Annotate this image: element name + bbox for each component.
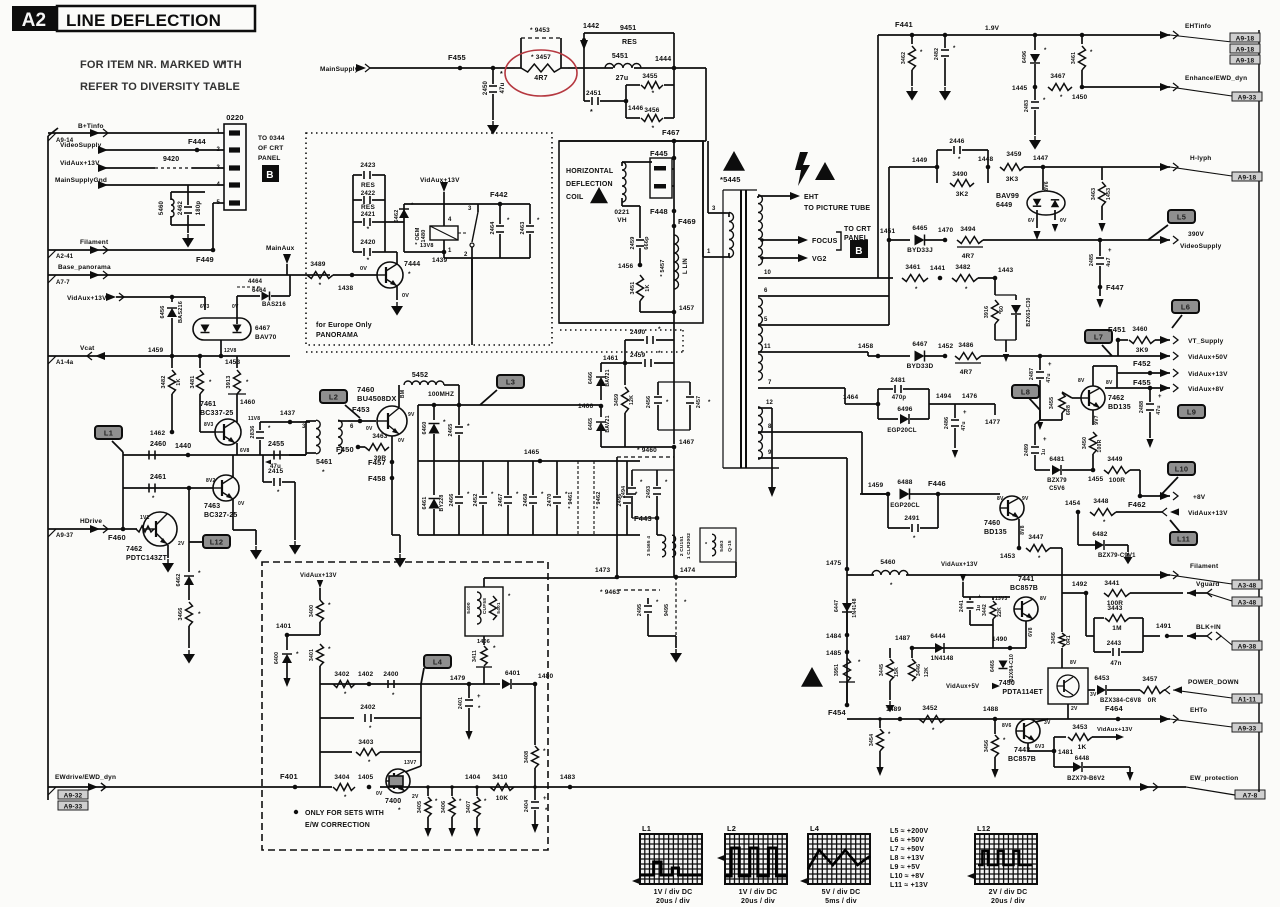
emitter resistor 3463 39R	[358, 433, 405, 462]
svg-text:2443: 2443	[1107, 640, 1122, 647]
svg-text:L3: L3	[506, 378, 515, 387]
svg-text:2493: 2493	[646, 486, 652, 498]
resistor 3459 3K3	[1000, 151, 1170, 183]
box for Europe Only dotted	[306, 133, 552, 345]
svg-text:VidAux+13V: VidAux+13V	[420, 177, 460, 184]
svg-text:12K: 12K	[924, 667, 930, 677]
svg-text:1477: 1477	[985, 419, 1000, 426]
node F460	[108, 489, 126, 542]
svg-text:F441: F441	[895, 20, 913, 29]
wire F454 row	[847, 705, 900, 718]
node 1455	[1088, 468, 1103, 483]
flag L2	[320, 390, 360, 418]
zener 6465 BZX84-C10	[990, 648, 1015, 683]
scope L12	[967, 824, 1037, 905]
svg-text:6467: 6467	[912, 341, 927, 348]
svg-text:L4: L4	[810, 824, 820, 833]
svg-text:A9-32: A9-32	[64, 793, 83, 800]
svg-text:2489: 2489	[1024, 444, 1030, 456]
svg-text:FOCUS: FOCUS	[812, 238, 838, 245]
wire left column 617	[560, 455, 617, 577]
svg-text:11: 11	[764, 344, 771, 350]
wire BAV70 common 12V8	[221, 340, 236, 356]
node 1453 right	[1000, 546, 1021, 560]
svg-text:1441: 1441	[930, 265, 945, 272]
svg-text:3486: 3486	[958, 342, 973, 349]
resistor 3486 4R7	[955, 342, 1178, 376]
jumper 9453 dashed	[521, 27, 561, 58]
node F442	[444, 190, 530, 206]
svg-text:F443: F443	[634, 514, 652, 523]
jumper 9463 dashed	[600, 577, 660, 596]
svg-text:*: *	[443, 419, 446, 426]
svg-text:*: *	[590, 109, 593, 116]
svg-text:12V8: 12V8	[224, 348, 236, 354]
diode 6496 right	[1022, 33, 1047, 87]
svg-text:7462: 7462	[126, 546, 142, 553]
svg-text:BAV21: BAV21	[605, 415, 611, 432]
svg-text:LINE DEFLECTION: LINE DEFLECTION	[66, 11, 221, 30]
svg-text:3441: 3441	[1104, 580, 1119, 587]
svg-text:EHTinfo: EHTinfo	[1185, 23, 1211, 30]
EW transformer 5400 5401 box	[465, 578, 617, 645]
svg-text:5ms / div: 5ms / div	[825, 898, 857, 905]
svg-text:VidAux+13V: VidAux+13V	[1097, 727, 1133, 733]
panel flag B right	[850, 240, 868, 258]
svg-text:3K3: 3K3	[1006, 176, 1019, 183]
svg-text:3461: 3461	[905, 264, 920, 271]
wire 1474 row	[617, 562, 736, 579]
svg-text:3: 3	[216, 165, 220, 171]
svg-text:6R8: 6R8	[1066, 405, 1072, 415]
label VidAux+50V	[1188, 354, 1228, 361]
transistor 7461 BC337-25	[200, 401, 260, 445]
svg-text:2494: 2494	[621, 486, 627, 498]
svg-text:4464: 4464	[248, 279, 263, 285]
wire row 390V	[880, 228, 910, 242]
svg-text:EWdrive/EWD_dyn: EWdrive/EWD_dyn	[55, 774, 116, 781]
wire 2461 row	[123, 474, 213, 502]
svg-text:A9-18: A9-18	[1236, 36, 1255, 43]
svg-text:7400: 7400	[385, 798, 401, 805]
svg-text:F450: F450	[336, 445, 354, 454]
svg-text:L7: L7	[1094, 333, 1103, 342]
svg-text:2459: 2459	[630, 236, 636, 249]
svg-text:1440: 1440	[175, 443, 191, 450]
svg-text:A9-33: A9-33	[1238, 95, 1257, 102]
svg-text:22K: 22K	[997, 607, 1003, 617]
svg-text:+8V: +8V	[1193, 494, 1206, 501]
svg-text:EGP20CL: EGP20CL	[890, 502, 920, 509]
wire VidAux+13V jumper 9420	[60, 156, 224, 172]
svg-text:*: *	[319, 282, 322, 289]
svg-text:for Europe Only: for Europe Only	[316, 322, 372, 329]
svg-text:2459: 2459	[630, 352, 645, 359]
svg-text:VT_Supply: VT_Supply	[1188, 338, 1224, 345]
capacitor 2488	[1139, 388, 1162, 448]
node 1490	[992, 636, 1012, 650]
VG2 output	[760, 254, 826, 263]
svg-text:+: +	[1048, 362, 1052, 368]
svg-text:5461: 5461	[316, 459, 332, 466]
svg-text:3463: 3463	[1091, 188, 1097, 200]
svg-text:BAS216: BAS216	[178, 301, 184, 323]
svg-text:666p: 666p	[644, 236, 650, 250]
wire 1439 relay base rail	[397, 240, 447, 264]
wire +8V row	[1062, 492, 1206, 509]
svg-text:* 9463: * 9463	[600, 589, 620, 596]
deflection coil 0221 VH	[614, 162, 652, 224]
resistor 3467	[1048, 73, 1072, 101]
svg-text:6482: 6482	[1092, 531, 1107, 538]
diode 6444 1N4148	[930, 633, 953, 662]
svg-text:TO 0344: TO 0344	[258, 135, 285, 142]
wire pin10 row	[886, 277, 893, 279]
svg-text:F447: F447	[1106, 283, 1124, 292]
EHT output	[758, 192, 870, 212]
svg-text:1405: 1405	[358, 774, 373, 781]
dotted border mid	[306, 330, 683, 352]
resistor 3457 4R7	[515, 54, 568, 82]
jumper 9460 dashed	[617, 447, 674, 457]
wire VideoSupply	[60, 137, 224, 154]
node 1441	[930, 265, 945, 280]
diode 6447 1N4148	[834, 595, 858, 635]
node 1405	[358, 774, 373, 789]
svg-text:9V: 9V	[1022, 496, 1029, 502]
transformer pin 9	[758, 450, 847, 458]
svg-text:F446: F446	[928, 479, 946, 488]
node 1489	[886, 706, 902, 721]
transformer frame	[723, 190, 779, 468]
FOCUS output	[760, 236, 837, 245]
svg-text:1492: 1492	[1072, 581, 1087, 588]
resistor 3460 3K9	[1118, 326, 1178, 354]
svg-text:2423: 2423	[360, 162, 375, 169]
wire 3447 row	[1010, 549, 1062, 551]
svg-text:470p: 470p	[892, 395, 907, 401]
warning triangle EHT	[815, 162, 835, 180]
svg-text:1439: 1439	[432, 257, 447, 264]
svg-text:2483: 2483	[1024, 100, 1030, 112]
vertical 320 column	[319, 684, 321, 787]
diode 6460 BY228	[422, 403, 446, 461]
svg-text:1460: 1460	[240, 399, 255, 406]
wire 7400 collector	[404, 752, 421, 772]
svg-text:A9-33: A9-33	[1238, 726, 1257, 733]
warning triangle coil	[590, 187, 608, 203]
svg-text:1479: 1479	[450, 675, 465, 682]
transformer ground	[0, 0, 1, 1]
ground under 3466	[183, 650, 195, 664]
wire to F467	[559, 68, 706, 141]
svg-text:0220: 0220	[226, 113, 244, 122]
capacitor 2459b	[625, 350, 674, 367]
svg-text:2467: 2467	[498, 493, 504, 506]
note for Europe Only PANORAMA	[316, 322, 372, 339]
svg-text:VidAux+13V: VidAux+13V	[1188, 510, 1228, 517]
svg-text:8V: 8V	[1078, 378, 1085, 384]
diode 6462	[176, 570, 201, 600]
svg-text:1480: 1480	[421, 229, 427, 242]
capacitor 2402	[320, 704, 421, 732]
svg-text:0221: 0221	[614, 209, 629, 216]
transformer pin 5	[758, 317, 889, 325]
node 1494	[929, 393, 955, 404]
resistor 3457 0R	[1140, 676, 1262, 704]
wire Filament right row	[1160, 563, 1262, 590]
svg-text:1475: 1475	[826, 560, 841, 567]
svg-text:2482: 2482	[934, 48, 940, 60]
wire HDrive	[48, 518, 137, 539]
svg-text:A9-38: A9-38	[1238, 644, 1257, 651]
transistor 7462 PDTC143ZT	[126, 512, 185, 573]
svg-text:3455: 3455	[1049, 397, 1055, 409]
resistor 3453 1K	[1054, 724, 1133, 751]
capacitor 2496	[617, 461, 638, 535]
svg-text:VideoSupply: VideoSupply	[1180, 243, 1222, 250]
voltage table	[890, 828, 928, 889]
resistor 3489	[287, 261, 352, 289]
svg-text:A2: A2	[22, 10, 47, 31]
svg-text:1 CLR2002: 1 CLR2002	[686, 533, 692, 559]
wire Base_panorama	[48, 264, 330, 286]
svg-text:RES: RES	[622, 39, 637, 46]
svg-text:L10 ≈ +8V: L10 ≈ +8V	[890, 873, 924, 880]
note diversity table	[80, 59, 242, 93]
svg-text:3446: 3446	[916, 664, 922, 676]
svg-text:7460: 7460	[357, 385, 375, 394]
svg-text:TO CRT: TO CRT	[844, 226, 872, 233]
svg-text:6481: 6481	[1049, 456, 1064, 463]
diode 6401	[502, 670, 535, 689]
svg-text:4: 4	[216, 182, 220, 188]
resistor 3449 100R	[1104, 456, 1140, 496]
svg-text:6448: 6448	[1075, 755, 1090, 762]
capacitor 2423	[353, 162, 385, 252]
wire EW protection to edge	[1140, 775, 1265, 800]
svg-text:4R7: 4R7	[960, 369, 973, 376]
resistor 3454	[869, 717, 891, 776]
svg-text:3401: 3401	[309, 649, 315, 661]
svg-text:1: 1	[448, 248, 452, 254]
note TO 0344 OF CRT PANEL	[258, 135, 285, 162]
svg-text:REFER TO DIVERSITY TABLE: REFER TO DIVERSITY TABLE	[80, 81, 240, 93]
resistor 3459 12K	[614, 363, 635, 447]
title block A2	[12, 6, 57, 31]
node 1448	[978, 156, 993, 169]
svg-text:2401: 2401	[458, 697, 464, 709]
svg-text:6496: 6496	[1022, 51, 1028, 63]
capacitor 2495 jumper 9495	[617, 577, 687, 636]
svg-text:1446: 1446	[628, 105, 643, 112]
transformer pin 10	[758, 270, 893, 278]
svg-text:6465: 6465	[912, 225, 927, 232]
svg-text:A2-41: A2-41	[56, 254, 74, 260]
svg-text:3489: 3489	[310, 261, 325, 268]
svg-text:3449: 3449	[1107, 456, 1122, 463]
svg-text:6444: 6444	[930, 633, 945, 640]
svg-text:0V: 0V	[398, 438, 405, 444]
svg-text:POWER_DOWN: POWER_DOWN	[1188, 679, 1239, 686]
svg-text:6V3: 6V3	[1035, 744, 1045, 750]
svg-text:1449: 1449	[912, 157, 927, 164]
svg-text:9451: 9451	[620, 25, 636, 32]
svg-text:1466: 1466	[578, 403, 593, 410]
resistor 3447	[1026, 534, 1062, 562]
node 1481	[1052, 749, 1074, 756]
svg-text:8V3: 8V3	[204, 422, 214, 428]
svg-text:L7 ≈ +50V: L7 ≈ +50V	[890, 846, 924, 853]
svg-text:+: +	[978, 594, 981, 600]
svg-text:1476: 1476	[962, 393, 977, 400]
capacitor 2490	[625, 326, 674, 363]
inductor 5452 100MHZ	[399, 372, 459, 407]
svg-text:6401: 6401	[505, 670, 520, 677]
node 1465	[524, 449, 542, 463]
panel flag B	[262, 165, 279, 182]
label 390V VideoSupply	[1180, 231, 1222, 250]
svg-text:3442: 3442	[982, 604, 988, 616]
diode 6461 BY228	[422, 461, 445, 535]
svg-text:8V8: 8V8	[1020, 525, 1026, 535]
svg-text:3490: 3490	[952, 171, 967, 178]
svg-text:3461: 3461	[1071, 52, 1077, 64]
svg-text:2486: 2486	[944, 417, 950, 429]
svg-text:1459: 1459	[148, 347, 163, 354]
box 2446 3490	[889, 138, 988, 198]
svg-text:VG2: VG2	[812, 256, 827, 263]
svg-text:3466: 3466	[178, 607, 184, 620]
wire VidAux+13V row	[1117, 359, 1228, 378]
resistor 3451 1K	[630, 275, 674, 312]
diode 6465 BAV21	[588, 406, 611, 447]
red highlight ellipse	[505, 50, 577, 96]
svg-text:8V: 8V	[997, 496, 1004, 502]
vertical 421 column	[420, 684, 422, 752]
capacitor 2465	[448, 405, 470, 461]
svg-text:1470: 1470	[938, 227, 953, 234]
ground under 6400	[283, 678, 290, 687]
wire 7450 collector down	[1067, 703, 1069, 718]
wire 2455 to 5461	[289, 421, 306, 455]
svg-text:L1: L1	[642, 824, 651, 833]
svg-text:*: *	[198, 570, 201, 577]
svg-text:3452: 3452	[922, 705, 937, 712]
wire MainSupplyGnd	[55, 177, 224, 189]
svg-text:VidAux+8V: VidAux+8V	[1188, 386, 1224, 393]
svg-text:3400: 3400	[309, 605, 315, 617]
svg-text:5400: 5400	[466, 602, 472, 614]
wire collector 7460r	[1012, 470, 1019, 496]
node F451	[1108, 325, 1126, 356]
wire rail 535 to 617	[639, 534, 641, 536]
ground under emitter	[392, 535, 406, 568]
svg-text:1481: 1481	[1058, 749, 1073, 756]
svg-text:A9-18: A9-18	[1236, 58, 1255, 65]
svg-text:6462: 6462	[394, 209, 400, 222]
node 1440	[175, 443, 191, 457]
resistor 3461 rowB	[902, 264, 928, 293]
svg-text:2: 2	[464, 252, 468, 258]
svg-text:F452: F452	[1133, 359, 1151, 368]
svg-text:BZX79-B6V2: BZX79-B6V2	[1067, 776, 1105, 782]
svg-text:2446: 2446	[949, 138, 964, 145]
svg-text:1: 1	[707, 249, 711, 255]
svg-text:1480: 1480	[538, 673, 553, 680]
svg-text:3454: 3454	[869, 734, 875, 746]
svg-text:1484: 1484	[826, 633, 841, 640]
svg-text:5: 5	[764, 317, 768, 323]
flag L10	[1160, 462, 1195, 496]
svg-text:1456: 1456	[618, 263, 633, 270]
svg-text:1K: 1K	[645, 284, 651, 291]
svg-text:* 9462: * 9462	[596, 491, 602, 508]
svg-text:6V8: 6V8	[1028, 627, 1034, 637]
node 1444	[655, 56, 676, 70]
svg-text:L LIN: L LIN	[683, 258, 689, 274]
label VT_Supply	[1188, 338, 1224, 345]
svg-text:1V / div DC: 1V / div DC	[739, 889, 778, 896]
svg-text:8V: 8V	[1106, 380, 1113, 386]
svg-text:BAS216: BAS216	[262, 302, 286, 308]
transformer 5445 secondary winding top	[758, 195, 762, 265]
svg-text:1442: 1442	[583, 23, 599, 30]
svg-text:3456: 3456	[984, 740, 990, 752]
svg-text:F445: F445	[650, 149, 668, 158]
sparkgap 3451	[834, 658, 861, 705]
transformer pin 8	[758, 424, 888, 494]
capacitor 2489 1u	[1024, 420, 1047, 470]
dual diode 6449 BAV99	[996, 167, 1067, 240]
svg-text:6456: 6456	[160, 305, 166, 318]
svg-text:A1-11: A1-11	[1238, 697, 1257, 704]
svg-text:47u: 47u	[1046, 373, 1052, 383]
svg-text:6488: 6488	[897, 479, 912, 486]
svg-text:*: *	[398, 807, 401, 814]
svg-text:2 CU151: 2 CU151	[679, 536, 685, 556]
svg-text:RES: RES	[361, 182, 375, 189]
svg-text:BY228: BY228	[439, 495, 445, 512]
svg-text:2836: 2836	[250, 425, 256, 438]
svg-text:5460: 5460	[159, 200, 165, 215]
relay 1480 OEM	[415, 204, 468, 258]
svg-text:* 3457: * 3457	[531, 54, 551, 61]
svg-text:2466: 2466	[449, 493, 455, 506]
note TO CRT PANEL right	[836, 226, 872, 250]
svg-text:4u7: 4u7	[1106, 257, 1112, 267]
svg-text:1V1: 1V1	[140, 515, 150, 521]
note HORIZONTAL DEFLECTION COIL	[566, 168, 614, 201]
resistor 3494 4R7	[957, 226, 1178, 260]
capacitor 2404	[524, 787, 548, 833]
resistor 3463 1453 right	[1091, 167, 1112, 232]
svg-text:+: +	[1043, 437, 1047, 443]
diode 6460 relay clamp	[385, 203, 414, 240]
svg-text:2465: 2465	[448, 423, 454, 436]
node 1454	[1062, 500, 1080, 514]
transistor 7463 BC327-25	[204, 455, 245, 530]
svg-text:1474: 1474	[680, 567, 695, 574]
svg-text:3: 3	[712, 206, 716, 212]
transformer pin 7	[758, 380, 860, 404]
svg-text:1483: 1483	[560, 774, 575, 781]
transformer 5445 primary	[703, 212, 734, 258]
svg-text:2495: 2495	[637, 604, 643, 616]
svg-text:L8: L8	[1021, 388, 1030, 397]
svg-text:1455: 1455	[1088, 476, 1103, 483]
svg-text:Enhance/EWD_dyn: Enhance/EWD_dyn	[1185, 75, 1247, 82]
